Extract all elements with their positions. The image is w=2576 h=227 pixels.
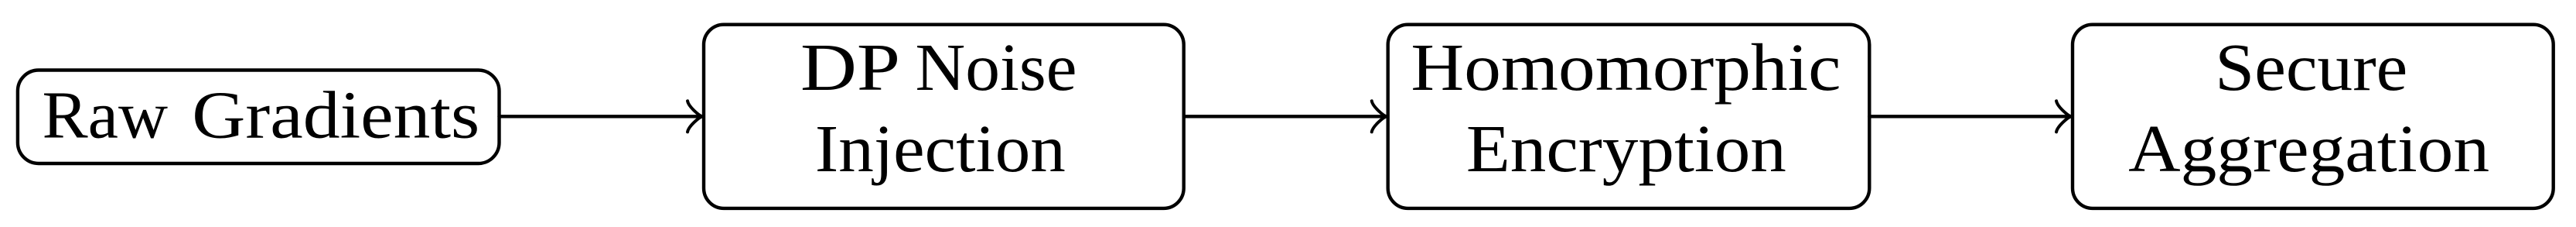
svg-text:Injection: Injection [815,111,1066,186]
svg-text:Gradients: Gradients [192,77,479,153]
svg-text:Noise: Noise [916,29,1077,105]
svg-text:Secure: Secure [2215,29,2407,105]
svg-text:Encryption: Encryption [1466,111,1786,186]
svg-text:Homomorphic: Homomorphic [1411,29,1841,105]
svg-text:DP: DP [800,29,900,105]
svg-text:Aggregation: Aggregation [2128,111,2489,186]
svg-text:Raw: Raw [43,77,169,153]
